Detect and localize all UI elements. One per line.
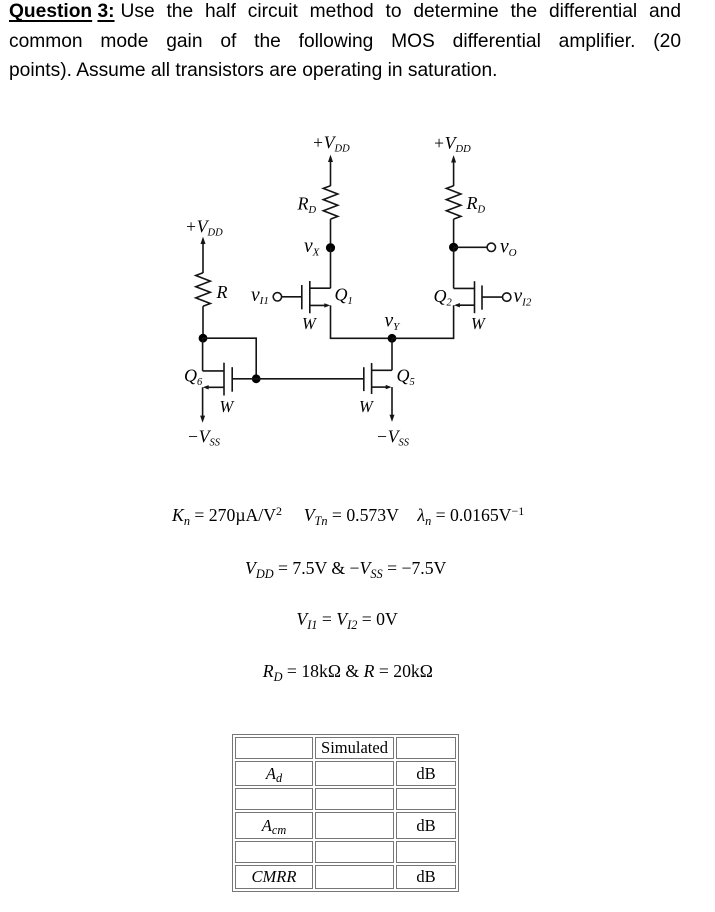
terminal vI1 bbox=[273, 293, 281, 301]
wire: bias node to Q6 drain bbox=[202, 338, 204, 371]
svg-text:Q2: Q2 bbox=[434, 286, 453, 308]
value label: Kn bbox=[172, 505, 282, 526]
node: output node dot bbox=[449, 243, 458, 252]
label vx bbox=[304, 236, 321, 258]
label W (Q2) bbox=[471, 314, 486, 333]
svg-text:W: W bbox=[359, 397, 374, 416]
wire: vx node to Q1 drain bbox=[330, 248, 332, 289]
label W (Q1) bbox=[302, 314, 317, 333]
node: bias node dot bbox=[199, 334, 208, 343]
transistor Q1 bbox=[282, 281, 331, 313]
label -VSS (Q5 branch) bbox=[376, 427, 410, 449]
transistor Q5 bbox=[364, 363, 392, 394]
power -VSS (Q5 branch) bbox=[390, 415, 395, 422]
svg-text:Q1: Q1 bbox=[335, 285, 353, 307]
svg-text:W: W bbox=[471, 314, 486, 333]
label W (Q5) bbox=[359, 397, 374, 416]
svg-text:vI1: vI1 bbox=[251, 285, 269, 307]
wire: Q1 source to vy rail bbox=[331, 305, 393, 338]
svg-text:vI2: vI2 bbox=[514, 286, 532, 308]
transistor Q6 bbox=[203, 363, 233, 396]
power -VSS (bias branch) bbox=[200, 416, 205, 423]
transistor Q2 bbox=[454, 281, 503, 313]
wire: Q6 source to -VSS bbox=[202, 387, 204, 416]
power +VDD supply (bias branch) bbox=[201, 237, 206, 273]
label Q2 bbox=[434, 286, 453, 308]
resistor RD (right) bbox=[446, 186, 461, 219]
wire: RD to vx node bbox=[330, 219, 332, 248]
svg-text:RD: RD bbox=[297, 194, 317, 216]
node vx bbox=[326, 243, 335, 252]
svg-text:vX: vX bbox=[304, 236, 321, 258]
value label: lambda-n bbox=[417, 505, 524, 526]
value label: VI1=VI2 bbox=[296, 609, 397, 630]
label R bbox=[216, 282, 228, 302]
svg-text:Q6: Q6 bbox=[184, 366, 203, 388]
value label: RD and R bbox=[263, 661, 433, 682]
node vy bbox=[388, 334, 397, 343]
wire: Q5 source to -VSS bbox=[391, 387, 393, 415]
question paragraph bbox=[9, 0, 681, 85]
svg-text:vY: vY bbox=[385, 311, 402, 333]
label RD (left) bbox=[297, 194, 317, 216]
resistor RD (left) bbox=[323, 186, 338, 219]
label Q5 bbox=[397, 366, 415, 388]
svg-text:vO: vO bbox=[500, 237, 517, 259]
label Q6 bbox=[184, 366, 203, 388]
label W (Q6) bbox=[220, 397, 235, 416]
label RD (right) bbox=[466, 193, 486, 215]
wire: bias node to gate junction bbox=[203, 338, 256, 379]
wire: RD to output node bbox=[453, 219, 455, 247]
label vy bbox=[385, 311, 402, 333]
wire: resistor R to bias node bbox=[202, 306, 204, 338]
value label: VTn bbox=[304, 505, 399, 526]
terminal vI2 bbox=[503, 293, 511, 301]
wire: Q6 gate lead bbox=[232, 378, 256, 380]
terminal vo bbox=[487, 243, 495, 251]
label Q1 bbox=[335, 285, 353, 307]
power +VDD supply (Q1 branch) bbox=[328, 155, 333, 186]
value label: VDD/VSS bbox=[245, 558, 446, 579]
label -VSS (bias) bbox=[187, 427, 221, 449]
svg-text:−VSS: −VSS bbox=[187, 427, 221, 449]
wire: vy to Q5 drain bbox=[391, 338, 393, 370]
svg-text:−VSS: −VSS bbox=[376, 427, 410, 449]
svg-text:Q5: Q5 bbox=[397, 366, 415, 388]
label vo bbox=[500, 237, 517, 259]
svg-text:+VDD: +VDD bbox=[433, 133, 471, 155]
node: gate bias junction dot bbox=[252, 374, 261, 383]
svg-text:RD: RD bbox=[466, 193, 486, 215]
label vI2 bbox=[514, 286, 532, 308]
svg-text:+VDD: +VDD bbox=[185, 217, 223, 239]
wire: output node to vo terminal bbox=[454, 246, 488, 248]
svg-text:+VDD: +VDD bbox=[312, 133, 350, 155]
label +VDD (bias) bbox=[185, 217, 223, 239]
power +VDD supply (Q2 branch) bbox=[451, 155, 456, 186]
label +VDD (Q2 branch) bbox=[433, 133, 471, 155]
resistor R bbox=[196, 273, 211, 306]
svg-text:W: W bbox=[302, 314, 317, 333]
wire: gate junction to Q5 gate bbox=[256, 378, 364, 380]
svg-text:R: R bbox=[216, 282, 228, 302]
wire: output node to Q2 drain bbox=[453, 247, 455, 288]
svg-text:W: W bbox=[220, 397, 235, 416]
results table bbox=[232, 734, 459, 892]
label +VDD (Q1 branch) bbox=[312, 133, 350, 155]
label vI1 bbox=[251, 285, 269, 307]
wire: Q2 source to vy rail bbox=[392, 305, 454, 338]
